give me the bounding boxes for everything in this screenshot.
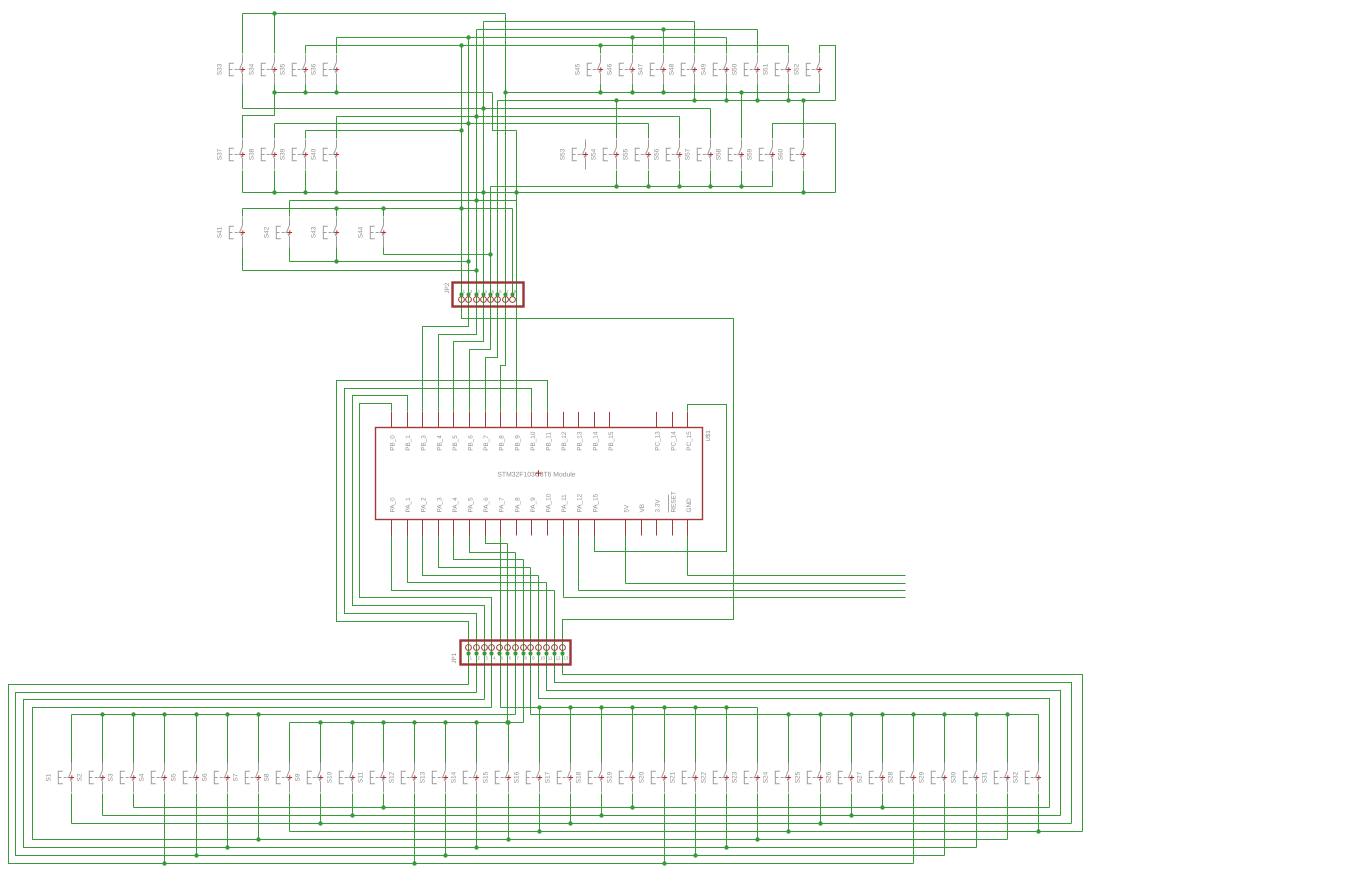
- switch S51: [775, 55, 788, 85]
- svg-text:3.3V: 3.3V: [655, 499, 662, 513]
- wire S8 bottom riser: [289, 794, 291, 832]
- pin PB_11: [547, 412, 549, 427]
- wire JP1 p13 right ring: [563, 675, 1083, 832]
- JP2 pin 4: [481, 297, 487, 303]
- wire S36 bottom riser: [336, 85, 338, 93]
- wire S42 bottom riser: [289, 248, 291, 262]
- svg-text:PB_0: PB_0: [390, 435, 397, 451]
- switch S15: [495, 763, 508, 793]
- wire row1-left bottom rail: [275, 92, 493, 94]
- svg-text:PC_15: PC_15: [686, 431, 693, 451]
- pin PB_1: [407, 412, 409, 427]
- svg-text:PA_11: PA_11: [561, 494, 568, 513]
- junction pin1 row3-line: [459, 206, 463, 210]
- svg-text:3: 3: [477, 289, 480, 294]
- wire net row-d rail S36-S49: [337, 37, 727, 39]
- wire S7 bottom riser: [258, 794, 260, 840]
- pin PA_15: [594, 520, 596, 536]
- wire S26 bottom riser: [851, 794, 853, 816]
- svg-text:S29: S29: [918, 771, 925, 783]
- wire 5V stub line: [626, 583, 906, 585]
- wire bottom rail R1 S1-S7 tops: [72, 714, 516, 716]
- wire S3 bottom riser: [133, 794, 135, 808]
- svg-text:PC_14: PC_14: [670, 431, 677, 451]
- switch S8: [276, 763, 289, 793]
- wire S42 top riser: [289, 201, 291, 217]
- wire S56 top riser: [679, 117, 681, 139]
- wire S36 top riser: [336, 38, 338, 54]
- svg-text:S27: S27: [856, 771, 863, 783]
- svg-text:S30: S30: [950, 771, 957, 783]
- wire S50 bottom riser: [757, 85, 759, 101]
- svg-text:PB_1: PB_1: [405, 435, 412, 451]
- wire bottom rail R4 S24-S32 tops: [531, 714, 1039, 716]
- svg-text:S14: S14: [450, 771, 457, 783]
- JP1 pin 2: [474, 645, 480, 651]
- pin PA_0: [391, 520, 393, 536]
- wire S5 bottom riser: [196, 794, 198, 856]
- wire S27 top riser: [882, 715, 884, 763]
- junctions S43t S44t: [334, 206, 338, 210]
- junction S47 top: [661, 27, 665, 31]
- svg-text:PB_12: PB_12: [561, 431, 568, 451]
- switch S22: [713, 763, 726, 793]
- svg-text:S6: S6: [201, 773, 208, 781]
- pin PA_4: [453, 520, 455, 536]
- switch S36: [323, 55, 336, 85]
- wire JP2 pin4 to module PB_5: [454, 295, 484, 412]
- junction S45 top: [598, 43, 602, 47]
- wire PB_11 to JP1 p1 column: [337, 381, 548, 685]
- switch S35: [292, 55, 305, 85]
- svg-text:S25: S25: [794, 771, 801, 783]
- svg-text:PA_0: PA_0: [390, 497, 397, 513]
- wire S45 bottom riser: [600, 85, 602, 93]
- junctions S5 S13 S21 bottoms: [194, 853, 198, 857]
- wire S10 bottom riser: [352, 794, 354, 816]
- wire PA_1 staircase: [408, 536, 547, 583]
- junction S46 top: [630, 35, 634, 39]
- switch S54: [603, 140, 616, 170]
- wire S38-S40 bottom riser: [305, 171, 307, 193]
- pin PA_2: [422, 520, 424, 536]
- svg-text:S32: S32: [1012, 771, 1019, 783]
- wire rail2 right: [498, 100, 836, 102]
- wire S39 top riser: [305, 131, 307, 139]
- wire S2 top riser: [102, 715, 104, 763]
- wire PA_11 riser: [563, 536, 565, 598]
- wire column line S39t: [306, 130, 462, 132]
- svg-text:PB_15: PB_15: [608, 431, 615, 451]
- junction pin1 rail-e: [459, 43, 463, 47]
- wire S38-S40 bottom riser: [336, 171, 338, 193]
- wire S30 top riser: [976, 715, 978, 763]
- wire S57 bottom riser: [710, 171, 712, 187]
- pin PA_9: [531, 520, 533, 536]
- junction S60 top: [801, 98, 805, 102]
- wire S13 top riser: [445, 723, 447, 763]
- switch S11: [370, 763, 383, 793]
- svg-text:S48: S48: [668, 63, 675, 75]
- wire S7 top riser: [258, 715, 260, 763]
- wire S45 top riser: [600, 46, 602, 54]
- pin VB: [641, 520, 643, 536]
- junctions S54b-S58b: [614, 184, 618, 188]
- wire S31 top riser: [1007, 715, 1009, 763]
- svg-text:S34: S34: [248, 63, 255, 75]
- JP2 pin 3: [474, 297, 480, 303]
- JP2 pin 8: [510, 297, 516, 303]
- svg-text:PB_3: PB_3: [421, 435, 428, 451]
- svg-text:PA_10: PA_10: [546, 493, 553, 512]
- svg-text:S40: S40: [310, 148, 317, 160]
- switch S50: [744, 55, 757, 85]
- JP1 pin 4: [489, 645, 495, 651]
- switch S47: [650, 55, 663, 85]
- svg-text:S46: S46: [606, 63, 613, 75]
- svg-text:S35: S35: [279, 63, 286, 75]
- svg-text:S43: S43: [310, 226, 317, 238]
- svg-text:S22: S22: [700, 771, 707, 783]
- svg-text:S59: S59: [746, 148, 753, 160]
- wire S52 top link: [820, 46, 836, 101]
- switch S21: [682, 763, 695, 793]
- wire column line S40t-S56t: [337, 116, 680, 118]
- JP2 pin 1: [459, 297, 465, 303]
- wire PC_15 to PA_15 loop: [595, 405, 727, 552]
- svg-text:9: 9: [532, 656, 535, 661]
- wire S40 top riser: [336, 117, 338, 139]
- svg-text:PA_2: PA_2: [421, 497, 428, 513]
- wire column line S33b-S57t: [243, 108, 711, 110]
- svg-text:S3: S3: [107, 773, 114, 781]
- switch S17: [557, 763, 570, 793]
- pin PA_12: [578, 520, 580, 536]
- wire net row-e rail S35-S51: [306, 45, 789, 47]
- wire S46 bottom riser: [632, 85, 634, 93]
- svg-text:PA_9: PA_9: [530, 497, 537, 513]
- wire S60 bottom riser: [803, 171, 805, 193]
- pin PB_7: [485, 412, 487, 427]
- wire net row-c rail S47-S50: [477, 29, 758, 31]
- junctions S34b S35b S36b: [272, 90, 276, 94]
- svg-text:RESET: RESET: [670, 491, 677, 512]
- wire S41 bottom riser: [242, 248, 244, 271]
- wire bottom rail R2 S8-S15 tops: [290, 722, 524, 724]
- wire row1-right bottom rail: [506, 92, 820, 94]
- wire 5V riser: [625, 536, 627, 584]
- svg-text:S39: S39: [279, 148, 286, 160]
- svg-text:12: 12: [556, 656, 561, 661]
- svg-text:S52: S52: [793, 63, 800, 75]
- svg-text:S9: S9: [294, 773, 301, 781]
- svg-text:13: 13: [563, 656, 568, 661]
- junctions S45b S46b S47b: [598, 90, 602, 94]
- wire PA_7 / JP1 p5 column: [500, 536, 502, 708]
- svg-text:JP2: JP2: [444, 282, 451, 293]
- svg-text:PB_13: PB_13: [577, 431, 584, 451]
- wire S22 bottom riser: [726, 794, 728, 848]
- wire S11 bottom riser: [383, 794, 385, 808]
- switch S5: [183, 763, 196, 793]
- wire S19 top riser: [632, 708, 634, 763]
- wire S25 top riser: [820, 715, 822, 763]
- svg-text:S8: S8: [263, 773, 270, 781]
- switch S10: [339, 763, 352, 793]
- svg-text:PB_11: PB_11: [546, 432, 553, 451]
- pin PB_0: [391, 412, 393, 427]
- pin PB_12: [563, 412, 565, 427]
- wire S15 top riser: [508, 723, 510, 763]
- wire S54 top riser: [616, 101, 618, 139]
- wire S55 top riser: [648, 124, 650, 139]
- JP1 pin 6: [505, 645, 511, 651]
- wire S12 bottom riser: [414, 794, 416, 864]
- svg-text:6: 6: [499, 289, 502, 294]
- wire S24 top riser: [788, 715, 790, 763]
- wire rail to passthrough jog: [493, 93, 517, 131]
- pin PC_15: [687, 412, 689, 427]
- svg-text:8: 8: [524, 656, 527, 661]
- wire S21 bottom riser: [695, 794, 697, 856]
- pin PB_14: [594, 412, 596, 427]
- wire PA_6 staircase: [486, 536, 508, 544]
- switch S30: [963, 763, 976, 793]
- svg-text:S23: S23: [731, 771, 738, 783]
- junctions S11 S19 S27 bottoms: [381, 805, 385, 809]
- svg-text:7: 7: [506, 289, 509, 294]
- svg-text:S1: S1: [45, 773, 52, 781]
- wire JP2 pin1 big loop to JP1 p13: [462, 295, 734, 675]
- wire S41 bottom line: [243, 270, 477, 272]
- wire JP2 pin6 to module PB_7: [486, 295, 498, 412]
- pin PC_13: [656, 412, 658, 427]
- junctions S9 S17 S25 bottoms: [318, 821, 322, 825]
- wire JP2 pin4 column: [483, 22, 485, 295]
- svg-text:S4: S4: [138, 773, 145, 781]
- wire JP2 pin2 column: [468, 38, 470, 295]
- junctions S6 S14 S22 bottoms: [225, 845, 229, 849]
- junction S54 top: [614, 98, 618, 102]
- JP2 pin 6: [495, 297, 501, 303]
- wire S32 bottom riser: [1038, 794, 1040, 832]
- wire S26 top riser: [851, 715, 853, 763]
- junction pin3 S56-line: [474, 114, 478, 118]
- JP1 pin 3: [482, 645, 488, 651]
- switch S58: [728, 140, 741, 170]
- wire S18 bottom riser: [601, 794, 603, 816]
- svg-text:S10: S10: [326, 771, 333, 783]
- switch S33: [229, 55, 242, 85]
- wire S57 top riser: [710, 109, 712, 139]
- wire JP2 pin7 to module PB_8: [501, 295, 506, 412]
- pin PA_6: [485, 520, 487, 536]
- wire S43 bottom riser: [336, 248, 338, 262]
- pin PB_13: [578, 412, 580, 427]
- wire S59 bottom riser: [772, 171, 774, 187]
- wire column line S38t-S55t: [275, 123, 649, 125]
- switch S39: [292, 140, 305, 170]
- switch S46: [619, 55, 632, 85]
- wire JP1 p11 right ring: [547, 583, 1061, 816]
- wire S58 top riser: [741, 93, 743, 139]
- switch S40: [323, 140, 336, 170]
- switch S1: [58, 763, 71, 793]
- wire bottom rail R3 S16-S23 tops: [501, 707, 758, 709]
- switch S9: [307, 763, 320, 793]
- svg-text:S58: S58: [715, 148, 722, 160]
- junction pin5 S44b-line: [488, 252, 492, 256]
- pin PB_4: [438, 412, 440, 427]
- junction pin2 rail-d: [466, 35, 470, 39]
- wire S51 bottom riser: [788, 85, 790, 101]
- pin PB_10: [531, 412, 533, 427]
- svg-text:S36: S36: [310, 63, 317, 75]
- JP2 pin 5: [488, 297, 494, 303]
- wire JP2 pin7 column: [505, 14, 507, 295]
- wire S44 bottom line: [384, 254, 491, 256]
- pin PA_1: [407, 520, 409, 536]
- svg-text:S17: S17: [544, 771, 551, 783]
- wire PA_5 staircase: [470, 536, 516, 553]
- wire S13 bottom riser: [445, 794, 447, 856]
- svg-text:U$1: U$1: [705, 430, 712, 442]
- wire S4 top riser: [164, 715, 166, 763]
- pin PA_11: [563, 520, 565, 536]
- wire PB_10 to JP1 p2 column: [345, 389, 532, 693]
- pin PB_3: [422, 412, 424, 427]
- wire left ring4 p4: [33, 708, 1008, 840]
- svg-text:STM32F103C8T6 Module: STM32F103C8T6 Module: [497, 472, 575, 479]
- junctions S2-S7 tops: [100, 712, 104, 716]
- wire S23 top riser: [757, 708, 759, 763]
- svg-text:11: 11: [548, 656, 553, 661]
- svg-text:PA_1: PA_1: [405, 497, 412, 513]
- junction S43 bottom: [334, 259, 338, 263]
- wire bottom rail S8-S32: [290, 831, 1083, 833]
- wire S38 top riser: [274, 124, 276, 139]
- junctions S9-S15 tops p6: [318, 720, 322, 724]
- svg-text:S51: S51: [762, 63, 769, 75]
- wire S60 top riser: [803, 101, 805, 139]
- switch S31: [994, 763, 1007, 793]
- switch S18: [588, 763, 601, 793]
- pin PB_5: [453, 412, 455, 427]
- wire S48 bottom riser: [694, 85, 696, 101]
- switch S53: [572, 140, 585, 170]
- svg-text:2: 2: [477, 656, 480, 661]
- pin PB_6: [469, 412, 471, 427]
- junction passthrough rail192: [514, 190, 518, 194]
- wire PA_2 staircase: [423, 536, 539, 576]
- junctions S7 S15 S23 bottoms: [256, 837, 260, 841]
- wire S50 top riser: [757, 30, 759, 54]
- switch S27: [869, 763, 882, 793]
- JP1 pin 7: [513, 645, 519, 651]
- wire S58 bottom riser: [741, 171, 743, 187]
- wire JP1 p9 column: [530, 568, 532, 715]
- wire left ring3 p3: [24, 700, 977, 848]
- switch S41: [229, 218, 242, 248]
- switch S59: [759, 140, 772, 170]
- wire S22 top riser: [726, 708, 728, 763]
- wire JP2 pin8 column: [512, 209, 514, 295]
- wire S11 top riser: [383, 723, 385, 763]
- wire row2 bottom rail A: [491, 186, 773, 188]
- wire S35 top riser: [305, 46, 307, 54]
- svg-text:S19: S19: [606, 771, 613, 783]
- switch S57: [697, 140, 710, 170]
- svg-text:S28: S28: [887, 771, 894, 783]
- svg-text:4: 4: [485, 289, 488, 294]
- wire S49 top riser: [726, 38, 728, 54]
- wire S17 bottom riser: [570, 794, 572, 824]
- svg-text:S13: S13: [419, 771, 426, 783]
- switch S24: [775, 763, 788, 793]
- junction S34 top: [272, 11, 276, 15]
- module U$1 STM32F103C8T6: [376, 428, 703, 520]
- wire JP2 pin1 column: [461, 46, 463, 295]
- svg-text:S49: S49: [700, 63, 707, 75]
- wire S44 bottom riser: [383, 248, 385, 255]
- svg-text:S60: S60: [777, 148, 784, 160]
- svg-text:S38: S38: [248, 148, 255, 160]
- wire S9 top riser: [320, 723, 322, 763]
- svg-text:2: 2: [470, 289, 473, 294]
- wire JP2 pin3 column: [476, 30, 478, 295]
- switch S45: [587, 55, 600, 85]
- svg-text:PA_5: PA_5: [468, 497, 475, 513]
- wire S59 top link: [773, 124, 836, 193]
- wire S16 top riser: [539, 708, 541, 763]
- svg-text:PB_8: PB_8: [499, 435, 506, 451]
- junctions S16 S24 S32 bottoms: [537, 829, 541, 833]
- JP1 pin 11: [544, 645, 550, 651]
- svg-text:S42: S42: [263, 226, 270, 238]
- junctions S10 S18 S26 bottoms: [350, 813, 354, 817]
- wire S4 bottom riser: [164, 794, 166, 864]
- wire S32 top riser: [1038, 715, 1040, 763]
- switch S60: [790, 140, 803, 170]
- pin PA_3: [438, 520, 440, 536]
- wire passthrough column to PB_9: [516, 131, 518, 412]
- switch S32: [1025, 763, 1038, 793]
- wire S48 top riser: [694, 22, 696, 54]
- svg-text:10: 10: [540, 656, 545, 661]
- pin 5V: [625, 520, 627, 536]
- wire S10 top riser: [352, 723, 354, 763]
- wire S47 top riser: [663, 30, 665, 54]
- wire PA_3 staircase: [439, 536, 531, 568]
- wire S47 bottom riser: [663, 85, 665, 93]
- wire PA_0 staircase: [392, 536, 555, 591]
- wire S33 bottom riser: [242, 85, 244, 109]
- switch S29: [931, 763, 944, 793]
- JP1 pin 9: [528, 645, 534, 651]
- wire S52 bottom riser: [819, 85, 821, 93]
- connector JP1: [461, 641, 571, 665]
- svg-text:PB_14: PB_14: [592, 431, 599, 451]
- svg-text:S15: S15: [482, 771, 489, 783]
- svg-text:S53: S53: [559, 148, 566, 160]
- pin GND: [687, 520, 689, 536]
- svg-text:S37: S37: [216, 148, 223, 160]
- wire PB_0 to JP1 p4 column: [360, 404, 492, 708]
- wire JP2 pin5 column: [490, 187, 492, 295]
- wire S38-S40 bottom riser: [274, 171, 276, 193]
- switch S37: [229, 140, 242, 170]
- svg-text:S18: S18: [575, 771, 582, 783]
